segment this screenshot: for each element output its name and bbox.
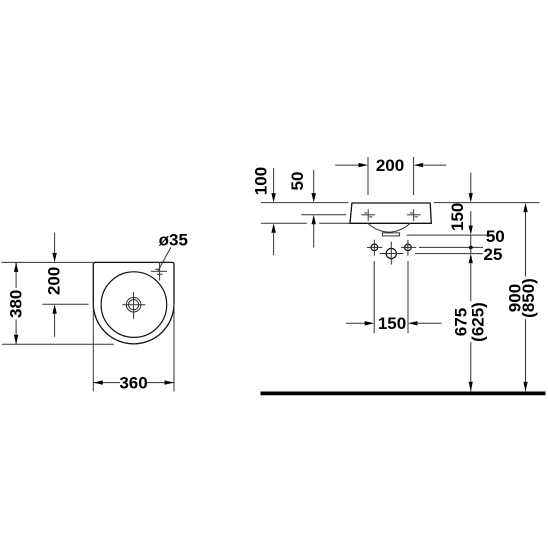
svg-text:360: 360: [119, 374, 147, 393]
hole ref line 50: [407, 234, 490, 236]
svg-text:(625): (625): [469, 302, 488, 342]
dim 360 arrow left: [93, 380, 103, 384]
svg-text:50: 50: [288, 172, 307, 191]
drain inner circle: [129, 300, 139, 310]
hole ref line fixing centers: [419, 246, 483, 248]
left fixing hole crosshair v: [373, 240, 375, 256]
dim 200 drain-center tick line: [42, 303, 88, 305]
dim 380 arrow up: [14, 262, 18, 272]
svg-text:200: 200: [376, 156, 404, 175]
svg-text:150: 150: [448, 203, 467, 231]
dim 200 upper shaft: [54, 233, 56, 254]
right tap hole cross vertical: [413, 209, 415, 221]
dim 200 arrow left: [414, 163, 424, 167]
dim 100 upper shaft: [273, 168, 275, 194]
dim 50 lower shaft: [313, 224, 315, 248]
faucet hole cross vertical: [159, 262, 161, 280]
dim 25 arrow up: [469, 254, 473, 264]
dim 100 lower shaft: [273, 232, 275, 255]
dim chain connector 235-254: [470, 235, 472, 254]
dim 200 arrow down: [52, 253, 56, 263]
sink front outline trapezoid: [350, 203, 431, 223]
floor line: [261, 391, 546, 395]
dim 380 top extension line: [2, 261, 94, 263]
dim 380 line upper segment: [15, 262, 17, 288]
dim 50 upper shaft: [313, 170, 315, 194]
rim bottom extension left segment a: [261, 222, 307, 224]
label 675 (625): [452, 302, 488, 342]
basin outer outline: [93, 262, 174, 343]
dim 675 shaft upper: [470, 263, 472, 302]
basin inner circle: [101, 272, 167, 338]
dim 200 line right: [422, 164, 446, 166]
dim 150 bottom line right: [417, 322, 442, 324]
dim 150 bottom right extension line: [407, 261, 409, 333]
right fixing hole crosshair v: [407, 240, 409, 256]
dim 200 arrow up: [52, 304, 56, 314]
svg-text:25: 25: [484, 245, 503, 264]
dim 360 line left segment: [93, 382, 120, 384]
faucet hole tick upper: [155, 268, 158, 270]
dim 150 upper shaft: [470, 173, 472, 195]
left tap hole cross vertical: [367, 209, 369, 221]
dim 150 arrow down onto hole line: [469, 226, 473, 236]
left tap hole tick2: [369, 216, 372, 218]
dim 360 right extension line: [173, 304, 175, 392]
dim 50 arrow up: [312, 215, 316, 225]
leader line to ø35: [158, 247, 171, 270]
right tap hole tick2: [415, 216, 418, 218]
label 900 (850): [505, 278, 538, 318]
dim 150 bottom line left: [346, 322, 366, 324]
dim 900 shaft upper: [525, 212, 527, 277]
svg-text:380: 380: [7, 290, 26, 318]
svg-text:(850): (850): [519, 278, 538, 318]
left fixing hole crosshair h: [367, 246, 382, 248]
dim 360 line right segment: [147, 382, 174, 384]
dim 360 arrow right: [165, 380, 175, 384]
dim 380 bottom extension line: [2, 343, 114, 345]
drain crosshair vertical: [133, 292, 135, 319]
dim 150 bottom arrow left: [408, 321, 418, 325]
faucet hole tick lower: [157, 273, 163, 275]
left tap hole cross horizontal: [361, 214, 375, 216]
drain flange rectangle: [382, 233, 399, 236]
right fixing hole: [405, 244, 412, 251]
left fixing hole: [371, 244, 378, 251]
dim 25 dot terminator: [469, 246, 473, 250]
tap centerline extension left: [301, 214, 346, 216]
svg-text:50: 50: [486, 227, 505, 246]
rim bottom extension left segment b: [319, 222, 349, 224]
dim 675 arrow down at floor: [469, 382, 473, 392]
dim 200 lower shaft: [54, 313, 56, 337]
dim 380 arrow down: [14, 335, 18, 345]
rim top extension line right: [434, 202, 540, 204]
rim top extension line left: [261, 202, 348, 204]
dim 100 arrow down: [271, 193, 275, 203]
dim 150 inner shaft: [470, 211, 472, 227]
svg-text:150: 150: [378, 314, 406, 333]
dim 200 right extension line: [413, 157, 415, 195]
dim 200 arrow right: [359, 163, 369, 167]
dim 150 bottom left extension line: [373, 261, 375, 333]
faucet hole cross horizontal: [151, 270, 167, 272]
dim 150 arrow down onto rim top: [469, 193, 473, 203]
hole ref line overflow center: [415, 253, 483, 255]
drain outer circle: [126, 297, 141, 312]
basin underside arc: [368, 223, 411, 232]
dim 360 left extension line: [92, 304, 94, 392]
dim 380 line lower segment: [15, 320, 17, 345]
dim 200 line left: [335, 164, 359, 166]
drain crosshair horizontal: [122, 304, 145, 306]
dim 100 arrow up: [271, 223, 275, 233]
right tap hole cross horizontal: [407, 214, 421, 216]
left tap hole tick: [364, 212, 367, 214]
overflow crosshair h: [380, 253, 404, 255]
svg-text:100: 100: [252, 167, 271, 195]
dim 900 shaft lower: [525, 319, 527, 391]
overflow hole: [386, 248, 396, 258]
dim 675 shaft lower: [470, 342, 472, 391]
dim 150 bottom arrow right: [365, 321, 375, 325]
dim 900 arrow down at floor: [523, 382, 527, 392]
right fixing hole crosshair h: [401, 246, 416, 248]
overflow crosshair v: [390, 242, 392, 265]
dim 50 arrow down: [312, 193, 316, 203]
svg-text:ø35: ø35: [159, 230, 188, 249]
dim 900 arrow up at rim: [523, 203, 527, 213]
dim 200 left extension line: [367, 157, 369, 195]
right tap hole tick: [410, 212, 413, 214]
svg-text:200: 200: [44, 267, 63, 295]
